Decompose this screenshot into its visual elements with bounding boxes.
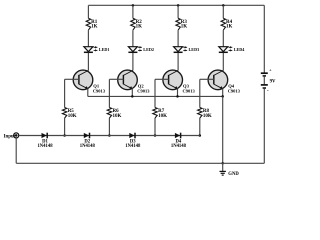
svg-text:-: - bbox=[267, 88, 269, 94]
svg-text:1K: 1K bbox=[181, 25, 188, 30]
battery BT1 9V bbox=[261, 68, 276, 94]
svg-text:1K: 1K bbox=[136, 25, 143, 30]
wire R3 to LED3 bbox=[177, 30, 179, 47]
wire R6 to diode chain tap 2 bbox=[108, 118, 110, 136]
svg-text:10K: 10K bbox=[68, 114, 77, 119]
resistor R2 1K bbox=[131, 18, 143, 30]
wire top rail to battery + bbox=[263, 5, 265, 72]
svg-text:1N4148: 1N4148 bbox=[37, 144, 53, 149]
node ground rail junction bbox=[221, 162, 224, 165]
diode D3 1N4148 bbox=[125, 133, 141, 149]
resistor R1 1K bbox=[86, 18, 98, 30]
node emitter rail junction Q2 bbox=[131, 95, 134, 98]
wire base column 4 upper bbox=[199, 79, 201, 107]
wire top rail to R3 bbox=[177, 5, 179, 18]
diode D2 1N4148 bbox=[80, 133, 96, 149]
svg-text:9V: 9V bbox=[270, 79, 276, 84]
svg-text:1K: 1K bbox=[226, 25, 233, 30]
wire Q2 base lead bbox=[109, 78, 123, 80]
svg-text:C9013: C9013 bbox=[228, 89, 241, 94]
LED3 bbox=[174, 46, 200, 52]
wire Q1 base lead bbox=[65, 78, 79, 80]
wire top +9V rail bbox=[88, 4, 264, 6]
node diode chain tap 3 bbox=[154, 134, 157, 137]
wire Q3 emitter stub bbox=[177, 88, 179, 96]
svg-text:GND: GND bbox=[228, 172, 239, 177]
wire top rail to R2 bbox=[132, 5, 134, 18]
node diode chain tap 1 bbox=[63, 134, 66, 137]
svg-text:10K: 10K bbox=[158, 114, 167, 119]
svg-text:1N4148: 1N4148 bbox=[125, 144, 141, 149]
resistor R3 1K bbox=[176, 18, 188, 30]
diode D4 1N4148 bbox=[171, 133, 187, 149]
svg-text:LED1: LED1 bbox=[99, 47, 110, 52]
svg-text:1N4148: 1N4148 bbox=[80, 144, 96, 149]
svg-text:C9013: C9013 bbox=[183, 89, 196, 94]
transistor Q2 C9013 bbox=[118, 70, 151, 94]
resistor R7 10K bbox=[153, 108, 167, 119]
wire bottom ground rail bbox=[16, 162, 264, 164]
wire LED2 to Q2 collector bbox=[132, 53, 134, 71]
ground GND symbol bbox=[220, 163, 240, 177]
wire base column 3 upper bbox=[154, 79, 156, 107]
svg-text:Input: Input bbox=[4, 134, 16, 139]
transistor Q1 C9013 bbox=[73, 70, 106, 94]
wire R4 to LED4 bbox=[222, 30, 224, 47]
node top rail junction col2 bbox=[132, 4, 135, 7]
transistor Q3 C9013 bbox=[163, 70, 196, 94]
wire LED3 to Q3 collector bbox=[177, 53, 179, 71]
diode D1 1N4148 bbox=[37, 133, 53, 149]
svg-text:LED2: LED2 bbox=[143, 47, 154, 52]
wire input jack to ground rail bbox=[15, 138, 17, 163]
wire Q4 emitter stub bbox=[222, 88, 224, 96]
wire R1 to LED1 bbox=[87, 30, 89, 47]
wire base column 1 upper bbox=[64, 79, 66, 107]
svg-text:LED3: LED3 bbox=[189, 47, 200, 52]
wire R7 to diode chain tap 3 bbox=[154, 118, 156, 136]
wire Q1 emitter stub bbox=[87, 88, 89, 96]
svg-text:10K: 10K bbox=[203, 114, 212, 119]
node diode chain tap 2 bbox=[108, 134, 111, 137]
wire top rail to R1 bbox=[87, 5, 89, 18]
svg-text:C9013: C9013 bbox=[137, 89, 150, 94]
node top rail junction col3 bbox=[177, 4, 180, 7]
node emitter rail junction Q3 bbox=[176, 95, 179, 98]
wire Q3 base lead bbox=[155, 78, 169, 80]
svg-text:C9013: C9013 bbox=[93, 89, 106, 94]
LED2 bbox=[128, 46, 154, 52]
wire diode chain bbox=[19, 135, 200, 137]
wire top rail to R4 bbox=[222, 5, 224, 18]
wire Q4 emitter to ground rail bbox=[222, 96, 224, 163]
svg-text:1N4148: 1N4148 bbox=[171, 144, 187, 149]
LED1 bbox=[84, 46, 110, 52]
svg-text:10K: 10K bbox=[113, 114, 122, 119]
wire R8 to diode chain tap 4 bbox=[199, 118, 201, 136]
input terminal jack bbox=[14, 133, 19, 138]
resistor R4 1K bbox=[221, 18, 233, 30]
resistor R6 10K bbox=[107, 108, 121, 119]
wire LED1 to Q1 collector bbox=[87, 53, 89, 71]
resistor R8 10K bbox=[198, 108, 212, 119]
wire LED4 to Q4 collector bbox=[222, 53, 224, 71]
wire battery - to bottom rail bbox=[263, 89, 265, 164]
wire Q4 base lead bbox=[200, 78, 214, 80]
wire base column 2 upper bbox=[108, 79, 110, 107]
wire R5 to diode chain tap 1 bbox=[64, 118, 66, 136]
svg-text:LED4: LED4 bbox=[234, 47, 246, 52]
node top rail junction col4 bbox=[222, 4, 225, 7]
node diode chain tap 4 bbox=[199, 134, 202, 137]
LED4 bbox=[219, 46, 246, 52]
wire emitter cascade rail bbox=[88, 95, 223, 97]
wire Q2 emitter stub bbox=[131, 88, 133, 96]
wire R2 to LED2 bbox=[132, 30, 134, 47]
svg-text:+: + bbox=[269, 68, 272, 73]
resistor R5 10K bbox=[62, 108, 76, 119]
transistor Q4 C9013 bbox=[208, 70, 241, 94]
node emitter rail end Q4 bbox=[221, 95, 224, 98]
svg-text:1K: 1K bbox=[91, 25, 98, 30]
